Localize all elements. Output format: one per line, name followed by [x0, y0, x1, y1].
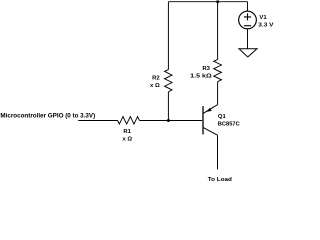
wire V1 top lead — [247, 2, 249, 12]
wire R1 to base — [139, 120, 202, 122]
voltage source V1 circle — [239, 11, 257, 29]
wire R3 top lead — [217, 2, 219, 60]
wire GPIO to R1 — [78, 120, 117, 122]
transistor Q1 base bar — [202, 106, 204, 134]
svg-text:Microcontroller GPIO (0 to 3.3: Microcontroller GPIO (0 to 3.3V) — [0, 113, 95, 120]
svg-text:x Ω: x Ω — [122, 137, 132, 143]
svg-text:To Load: To Load — [208, 177, 232, 183]
resistor R1 — [118, 117, 140, 125]
svg-text:R3: R3 — [202, 66, 210, 72]
wire V1 bottom lead — [247, 29, 249, 49]
V1 plus sign — [244, 13, 251, 20]
transistor Q1 emitter arrow — [206, 108, 212, 112]
resistor R2 — [165, 70, 173, 92]
wire R2 top lead — [167, 2, 169, 70]
transistor Q1 collector diagonal — [203, 128, 217, 136]
svg-text:R2: R2 — [152, 75, 160, 81]
svg-text:3.3 V: 3.3 V — [258, 22, 273, 28]
V1 minus sign — [244, 25, 251, 27]
svg-text:1.5 kΩ: 1.5 kΩ — [190, 74, 212, 80]
resistor R3 — [214, 59, 222, 81]
junction node at top rail / R3 — [216, 0, 219, 3]
wire R3 bottom lead / emitter vertical — [217, 82, 219, 105]
svg-text:Q1: Q1 — [218, 114, 227, 120]
wire top rail — [168, 1, 247, 3]
junction node at base wire / R2 — [167, 119, 170, 122]
svg-text:V1: V1 — [259, 15, 267, 21]
wire R2 bottom lead — [167, 92, 169, 121]
transistor Q1 emitter diagonal — [203, 105, 217, 114]
svg-text:R1: R1 — [123, 129, 131, 135]
ground symbol — [239, 49, 257, 57]
svg-text:BC857C: BC857C — [218, 121, 241, 127]
svg-text:x Ω: x Ω — [150, 83, 160, 89]
wire collector down lead — [217, 135, 219, 169]
